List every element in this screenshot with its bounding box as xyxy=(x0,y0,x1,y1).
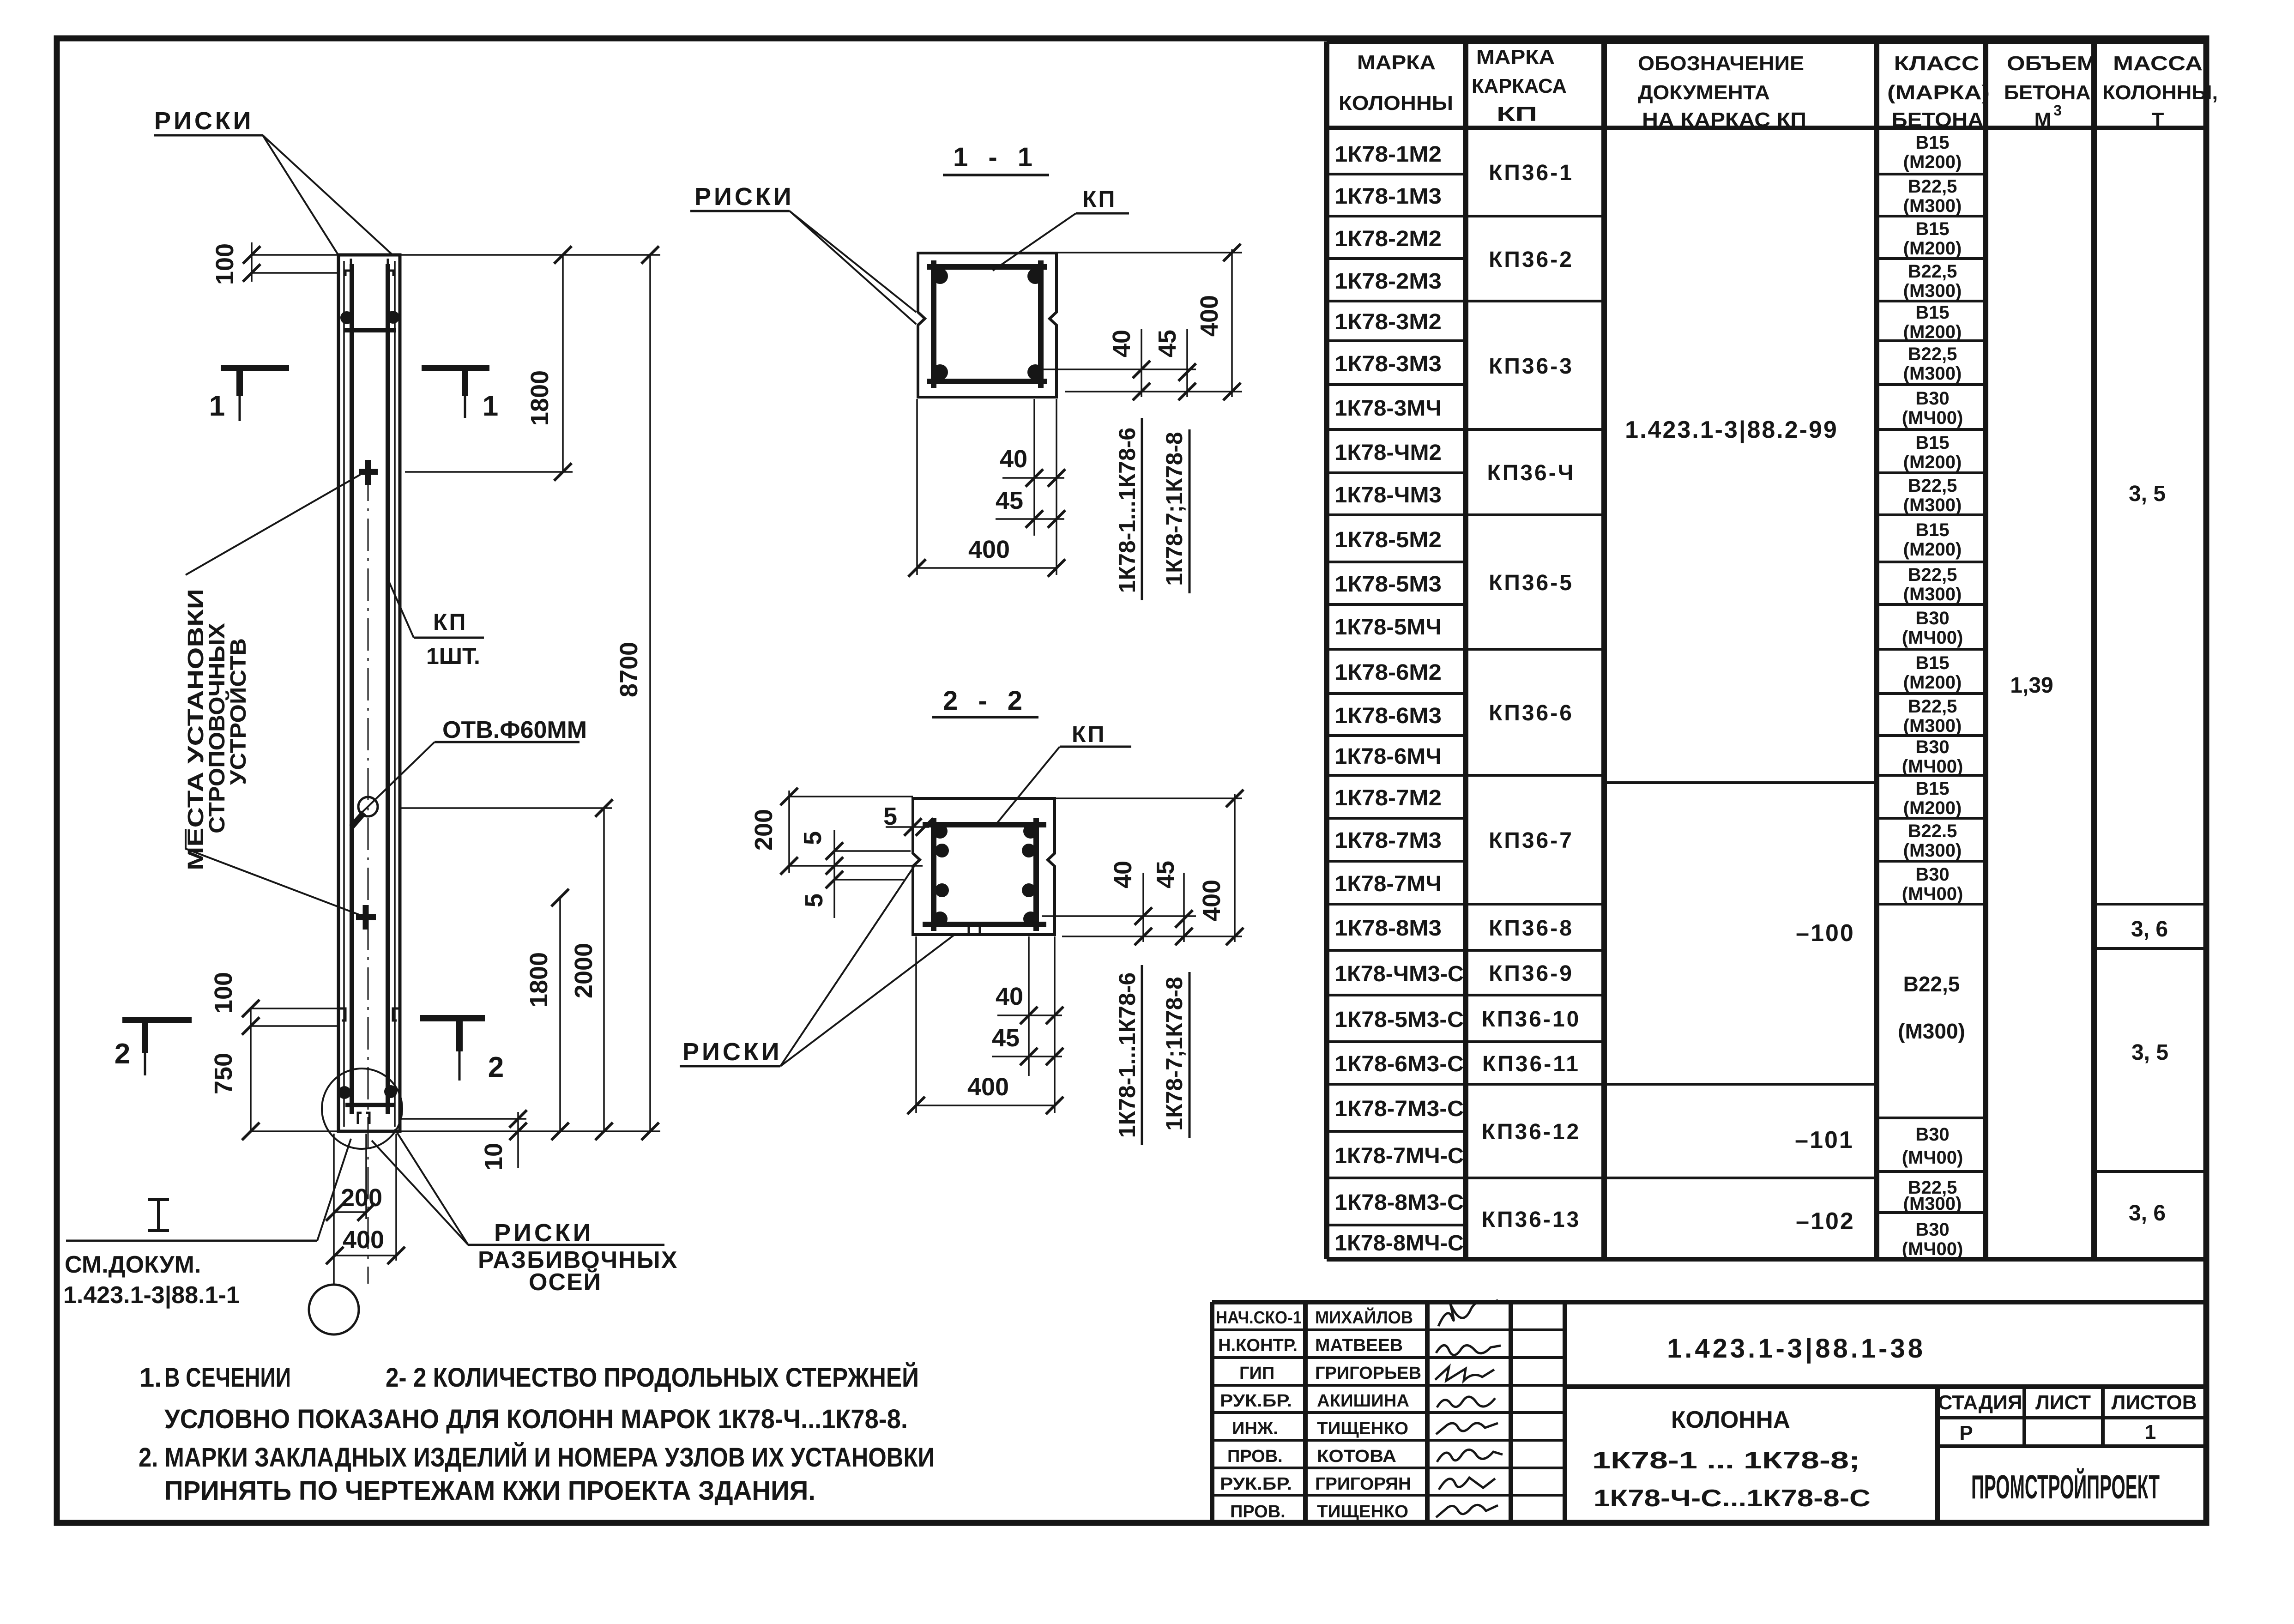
svg-text:1К78-1 ... 1К78-8;: 1К78-1 ... 1К78-8; xyxy=(1592,1447,1860,1474)
svg-text:КП36-6: КП36-6 xyxy=(1489,701,1574,725)
svg-text:КП: КП xyxy=(1072,721,1106,747)
svg-text:В15: В15 xyxy=(1915,433,1949,453)
svg-text:1К78-6М2: 1К78-6М2 xyxy=(1334,660,1442,685)
role/name texts xyxy=(1216,1307,1421,1521)
svg-text:(МЧ00): (МЧ00) xyxy=(1902,756,1963,777)
svg-text:ОБОЗНАЧЕНИЕ: ОБОЗНАЧЕНИЕ xyxy=(1638,52,1804,75)
svg-text:1К78-1М3: 1К78-1М3 xyxy=(1334,184,1442,209)
svg-text:УСТРОЙСТВ: УСТРОЙСТВ xyxy=(225,638,251,785)
svg-text:(МЧ00): (МЧ00) xyxy=(1902,1239,1963,1259)
svg-text:(МЧ00): (МЧ00) xyxy=(1902,408,1963,428)
bottom risk mark s22 xyxy=(969,925,980,934)
svg-text:1К78-1...1К78-6: 1К78-1...1К78-6 xyxy=(1114,972,1140,1138)
svg-text:(М300): (М300) xyxy=(1903,281,1962,301)
bar dots xyxy=(933,824,948,839)
svg-text:400: 400 xyxy=(1198,880,1225,921)
stirrup xyxy=(927,260,1047,388)
svg-text:В15: В15 xyxy=(1915,219,1949,239)
svg-text:КП: КП xyxy=(1497,103,1537,126)
svg-text:2000: 2000 xyxy=(570,943,598,998)
svg-text:1К78-6М3-С: 1К78-6М3-С xyxy=(1334,1052,1464,1076)
col5 col6 texts xyxy=(2010,482,2168,1226)
svg-text:КП36-3: КП36-3 xyxy=(1489,354,1574,379)
svg-text:40: 40 xyxy=(996,983,1023,1010)
svg-text:(М300): (М300) xyxy=(1903,1194,1962,1214)
svg-text:1.423.1-3|88.2-99: 1.423.1-3|88.2-99 xyxy=(1625,417,1838,443)
svg-text:1К78-6М3: 1К78-6М3 xyxy=(1334,704,1442,728)
svg-text:2: 2 xyxy=(115,1038,130,1070)
svg-text:ГИП: ГИП xyxy=(1239,1364,1274,1383)
svg-text:1К78-5М3-С: 1К78-5М3-С xyxy=(1334,1008,1464,1032)
svg-text:Н.КОНТР.: Н.КОНТР. xyxy=(1218,1336,1298,1355)
hole circle xyxy=(358,797,378,816)
svg-text:ИНЖ.: ИНЖ. xyxy=(1232,1419,1278,1438)
svg-text:РУК.БР.: РУК.БР. xyxy=(1220,1391,1292,1411)
svg-text:1К78-7М2: 1К78-7М2 xyxy=(1334,786,1442,810)
svg-text:1К78-ЧМ3-С: 1К78-ЧМ3-С xyxy=(1334,962,1464,986)
bottom dims s22 xyxy=(916,936,1062,1113)
svg-text:КП: КП xyxy=(433,609,467,635)
svg-text:ТИЩЕНКО: ТИЩЕНКО xyxy=(1317,1502,1408,1521)
right dims s11 xyxy=(1044,249,1242,397)
svg-text:ПРОВ.: ПРОВ. xyxy=(1230,1502,1286,1521)
col4 cell lines xyxy=(1877,174,1986,1213)
svg-text:(М300): (М300) xyxy=(1898,1019,1965,1043)
dim texts rotated xyxy=(210,243,643,1171)
svg-text:400: 400 xyxy=(1195,295,1223,337)
svg-text:1К78-8МЧ-С: 1К78-8МЧ-С xyxy=(1334,1231,1464,1256)
bottom stirrup xyxy=(345,1103,395,1107)
rotated mark labels s11 xyxy=(1114,428,1187,593)
svg-text:1К78-ЧМ2: 1К78-ЧМ2 xyxy=(1334,441,1442,465)
svg-text:В15: В15 xyxy=(1915,133,1949,153)
svg-text:10: 10 xyxy=(480,1143,507,1171)
svg-text:Р: Р xyxy=(1959,1422,1973,1444)
left dims s22 xyxy=(789,791,929,918)
svg-text:КП36-12: КП36-12 xyxy=(1482,1120,1581,1144)
svg-text:45: 45 xyxy=(1152,861,1179,888)
svg-text:МИХАЙЛОВ: МИХАЙЛОВ xyxy=(1315,1307,1413,1328)
corner bar dots xyxy=(932,268,948,284)
svg-text:1.423.1-3|88.1-38: 1.423.1-3|88.1-38 xyxy=(1667,1334,1926,1364)
col3 merge lines xyxy=(1604,783,1877,1178)
hole strop slash xyxy=(351,813,364,827)
svg-text:ОСЕЙ: ОСЕЙ xyxy=(529,1268,602,1296)
SECTION22 xyxy=(680,686,1244,1145)
svg-text:(МЧ00): (МЧ00) xyxy=(1902,884,1963,904)
svg-text:1К78-5М3: 1К78-5М3 xyxy=(1334,572,1442,597)
svg-text:КП36-9: КП36-9 xyxy=(1489,961,1574,986)
svg-text:1К78-2М3: 1К78-2М3 xyxy=(1334,269,1442,294)
svg-text:КП36-1: КП36-1 xyxy=(1489,161,1574,185)
svg-text:В22,5: В22,5 xyxy=(1908,261,1957,282)
svg-text:В СЕЧЕНИИ: В СЕЧЕНИИ xyxy=(164,1363,291,1393)
svg-text:200: 200 xyxy=(750,809,778,851)
svg-text:РИСКИ: РИСКИ xyxy=(694,183,794,211)
svg-text:В22.5: В22.5 xyxy=(1908,821,1957,841)
right dims s22 xyxy=(1042,794,1242,942)
strop cross 1 xyxy=(359,460,378,485)
svg-text:РИСКИ: РИСКИ xyxy=(494,1219,594,1247)
top risk brackets xyxy=(345,259,393,276)
svg-text:КОЛОННА: КОЛОННА xyxy=(1671,1407,1790,1433)
NOTES xyxy=(139,1363,935,1506)
svg-text:В30: В30 xyxy=(1915,1124,1949,1145)
TITLEBLOCK xyxy=(1212,1300,2206,1523)
svg-text:40: 40 xyxy=(1000,445,1027,473)
svg-text:(М200): (М200) xyxy=(1903,152,1962,172)
svg-text:1К78-7М3-С: 1К78-7М3-С xyxy=(1334,1097,1464,1121)
col4 cell texts xyxy=(1898,133,1965,1259)
svg-text:ПРОВ.: ПРОВ. xyxy=(1227,1447,1283,1466)
svg-text:1К78-3М2: 1К78-3М2 xyxy=(1334,310,1442,334)
signature rows xyxy=(1212,1330,1565,1495)
col1 row lines xyxy=(1327,174,1466,1225)
svg-text:45: 45 xyxy=(996,487,1023,514)
svg-text:КП36-13: КП36-13 xyxy=(1482,1207,1581,1232)
bottom dims s11 xyxy=(917,399,1064,575)
svg-text:1К78-Ч-С...1К78-8-С: 1К78-Ч-С...1К78-8-С xyxy=(1594,1485,1871,1512)
svg-text:КП36-8: КП36-8 xyxy=(1489,916,1574,941)
svg-text:В22,5: В22,5 xyxy=(1908,344,1957,364)
svg-text:КП36-Ч: КП36-Ч xyxy=(1487,461,1576,485)
svg-text:1К78-7;1К78-8: 1К78-7;1К78-8 xyxy=(1161,432,1187,586)
svg-text:1К78-8М3-С: 1К78-8М3-С xyxy=(1334,1190,1464,1215)
svg-text:1К78-1М2: 1К78-1М2 xyxy=(1334,142,1442,167)
svg-text:–101: –101 xyxy=(1795,1127,1854,1153)
svg-text:(М300): (М300) xyxy=(1903,584,1962,604)
svg-text:3, 6: 3, 6 xyxy=(2129,1201,2166,1226)
svg-text:400: 400 xyxy=(343,1226,384,1254)
svg-text:В22,5: В22,5 xyxy=(1908,476,1957,496)
svg-text:КЛАСС: КЛАСС xyxy=(1894,52,1980,75)
svg-text:В22,5: В22,5 xyxy=(1908,565,1957,585)
col6 cell lines xyxy=(2094,904,2206,1171)
svg-text:(МЧ00): (МЧ00) xyxy=(1902,1147,1963,1168)
svg-text:1,39: 1,39 xyxy=(2010,673,2053,698)
extension lines xyxy=(251,255,660,1261)
svg-text:3, 5: 3, 5 xyxy=(2131,1040,2168,1065)
svg-text:КОТОВА: КОТОВА xyxy=(1317,1447,1396,1466)
svg-text:В30: В30 xyxy=(1915,737,1949,757)
svg-text:(М300): (М300) xyxy=(1903,716,1962,736)
svg-text:3: 3 xyxy=(2053,102,2062,119)
svg-text:(М200): (М200) xyxy=(1903,322,1962,342)
svg-text:1К78-3МЧ: 1К78-3МЧ xyxy=(1334,396,1442,421)
section outline with notches xyxy=(913,798,1055,935)
svg-text:СТАДИЯ: СТАДИЯ xyxy=(1938,1391,2022,1414)
svg-text:(М200): (М200) xyxy=(1903,539,1962,560)
svg-text:1.423.1-3|88.1-1: 1.423.1-3|88.1-1 xyxy=(63,1282,240,1309)
svg-text:ГРИГОРЬЕВ: ГРИГОРЬЕВ xyxy=(1315,1364,1421,1383)
svg-text:200: 200 xyxy=(341,1184,382,1212)
svg-text:40: 40 xyxy=(1109,861,1137,888)
centerline (dash-dot) xyxy=(368,469,369,1284)
svg-text:–100: –100 xyxy=(1796,920,1855,947)
svg-text:100: 100 xyxy=(211,243,239,285)
section mark 2 left xyxy=(122,1020,192,1075)
svg-text:В15: В15 xyxy=(1915,520,1949,540)
rotated mark labels s22 xyxy=(1114,972,1187,1138)
svg-text:400: 400 xyxy=(967,1073,1009,1101)
svg-text:–102: –102 xyxy=(1796,1208,1855,1235)
svg-text:(М200): (М200) xyxy=(1903,238,1962,259)
roman I mark xyxy=(148,1200,169,1231)
svg-text:ЛИСТОВ: ЛИСТОВ xyxy=(2112,1391,2197,1414)
svg-text:3, 6: 3, 6 xyxy=(2131,917,2168,942)
svg-text:3, 5: 3, 5 xyxy=(2129,482,2166,506)
svg-text:45: 45 xyxy=(1153,330,1181,357)
svg-text:2- 2 КОЛИЧЕСТВО ПРОДОЛЬНЫХ С: 2- 2 КОЛИЧЕСТВО ПРОДОЛЬНЫХ СТЕРЖНЕЙ xyxy=(386,1363,919,1393)
svg-text:В30: В30 xyxy=(1915,1220,1949,1240)
dim verticals xyxy=(251,242,650,1256)
svg-text:МАРКА: МАРКА xyxy=(1476,46,1555,68)
svg-text:1 - 1: 1 - 1 xyxy=(953,142,1039,172)
svg-text:1К78-ЧМ3: 1К78-ЧМ3 xyxy=(1334,483,1442,507)
svg-text:В30: В30 xyxy=(1915,388,1949,409)
top stirrup xyxy=(344,328,396,332)
signatures xyxy=(1435,1300,1503,1517)
svg-text:ПРИНЯТЬ ПО ЧЕРТЕЖАМ КЖИ П: ПРИНЯТЬ ПО ЧЕРТЕЖАМ КЖИ ПРОЕКТА ЗДАНИЯ. xyxy=(164,1476,815,1506)
svg-text:БЕТОНА,: БЕТОНА, xyxy=(2004,81,2096,104)
svg-text:МАССА: МАССА xyxy=(2113,52,2203,75)
header texts xyxy=(1339,46,2218,131)
svg-text:1К78-7МЧ-С: 1К78-7МЧ-С xyxy=(1334,1144,1464,1168)
svg-text:В15: В15 xyxy=(1915,653,1949,673)
svg-text:КОЛОННЫ: КОЛОННЫ xyxy=(1339,92,1453,115)
svg-text:(МАРКА): (МАРКА) xyxy=(1887,81,1990,104)
svg-text:НАЧ.СКО-1: НАЧ.СКО-1 xyxy=(1216,1308,1302,1328)
svg-text:1К78-7;1К78-8: 1К78-7;1К78-8 xyxy=(1161,977,1187,1130)
TABLE xyxy=(1327,42,2218,1259)
svg-text:1К78-8М3: 1К78-8М3 xyxy=(1334,916,1442,941)
svg-text:КОЛОННЫ,: КОЛОННЫ, xyxy=(2102,81,2218,104)
svg-text:В15: В15 xyxy=(1915,302,1949,323)
svg-text:ПРОМСТРОЙПРОЕКТ: ПРОМСТРОЙПРОЕКТ xyxy=(1971,1468,2160,1506)
svg-text:8700: 8700 xyxy=(615,642,643,697)
svg-text:1К78-3М3: 1К78-3М3 xyxy=(1334,352,1442,376)
svg-text:5: 5 xyxy=(800,894,828,907)
svg-text:ОБЪЕМ: ОБЪЕМ xyxy=(2007,52,2096,75)
svg-text:(М300): (М300) xyxy=(1903,495,1962,515)
detail circle at foot xyxy=(322,1069,402,1149)
svg-text:М: М xyxy=(2034,109,2052,131)
svg-text:НА КАРКАС КП: НА КАРКАС КП xyxy=(1642,109,1806,131)
svg-text:РИСКИ: РИСКИ xyxy=(682,1038,782,1066)
strop dots top xyxy=(340,311,353,324)
svg-text:(М200): (М200) xyxy=(1903,672,1962,693)
svg-text:В22,5: В22,5 xyxy=(1908,176,1957,197)
svg-text:КП36-10: КП36-10 xyxy=(1482,1007,1581,1032)
svg-text:2: 2 xyxy=(488,1051,504,1083)
svg-text:ТИЩЕНКО: ТИЩЕНКО xyxy=(1317,1419,1408,1438)
col3 cell texts xyxy=(1625,417,1855,1235)
svg-text:КП: КП xyxy=(1082,186,1117,212)
table top, header bottom, table bottom xyxy=(1327,42,2206,1259)
col1 cell texts xyxy=(1334,142,1464,1256)
bottom risk brackets xyxy=(340,1008,398,1124)
svg-text:1ШТ.: 1ШТ. xyxy=(426,643,480,669)
svg-text:В22,5: В22,5 xyxy=(1908,696,1957,717)
svg-text:1: 1 xyxy=(2145,1421,2156,1443)
svg-text:5: 5 xyxy=(883,803,897,830)
svg-text:(М200): (М200) xyxy=(1903,452,1962,472)
ELEVATION xyxy=(63,107,678,1334)
section outline with notches xyxy=(918,253,1056,397)
svg-text:ЛИСТ: ЛИСТ xyxy=(2035,1391,2091,1414)
svg-text:1К78-2М2: 1К78-2М2 xyxy=(1334,227,1442,251)
svg-text:КП36-7: КП36-7 xyxy=(1489,828,1574,853)
svg-text:МАРКА: МАРКА xyxy=(1357,51,1436,74)
svg-text:1К78-1...1К78-6: 1К78-1...1К78-6 xyxy=(1114,428,1140,593)
svg-text:1: 1 xyxy=(209,390,225,422)
svg-text:750: 750 xyxy=(210,1053,237,1094)
svg-text:(МЧ00): (МЧ00) xyxy=(1902,628,1963,648)
svg-text:1К78-5МЧ: 1К78-5МЧ xyxy=(1334,615,1442,640)
svg-text:100: 100 xyxy=(210,972,237,1014)
stadia texts xyxy=(1938,1391,2197,1444)
section mark 2 right xyxy=(420,1018,485,1081)
svg-text:АКИШИНА: АКИШИНА xyxy=(1317,1391,1409,1411)
svg-text:КП36-2: КП36-2 xyxy=(1489,248,1574,272)
svg-text:В22,5: В22,5 xyxy=(1903,972,1960,996)
svg-text:(М200): (М200) xyxy=(1903,798,1962,818)
svg-text:5: 5 xyxy=(799,831,827,845)
column inner face lines xyxy=(344,261,395,1127)
svg-text:1К78-7М3: 1К78-7М3 xyxy=(1334,828,1442,853)
svg-text:1К78-6МЧ: 1К78-6МЧ xyxy=(1334,744,1442,769)
svg-text:1К78-7МЧ: 1К78-7МЧ xyxy=(1334,872,1442,896)
svg-text:45: 45 xyxy=(992,1024,1020,1052)
svg-text:1.: 1. xyxy=(139,1363,162,1393)
strop cross 2 xyxy=(356,905,376,930)
svg-text:1800: 1800 xyxy=(525,952,553,1008)
svg-text:КП36-5: КП36-5 xyxy=(1489,571,1574,595)
SECTION11 xyxy=(690,142,1242,600)
stadia table xyxy=(1938,1387,2206,1446)
svg-text:КАРКАСА: КАРКАСА xyxy=(1472,75,1567,97)
strop dots bottom xyxy=(338,1086,351,1099)
svg-text:КП36-11: КП36-11 xyxy=(1482,1052,1580,1076)
stirrup xyxy=(923,818,1046,931)
svg-text:1: 1 xyxy=(483,390,498,422)
svg-text:БЕТОНА: БЕТОНА xyxy=(1892,109,1984,131)
svg-text:ДОКУМЕНТА: ДОКУМЕНТА xyxy=(1638,81,1770,104)
svg-text:СМ.ДОКУМ.: СМ.ДОКУМ. xyxy=(65,1251,201,1278)
svg-text:40: 40 xyxy=(1108,330,1135,357)
svg-text:1К78-5М2: 1К78-5М2 xyxy=(1334,528,1442,552)
svg-text:РУК.БР.: РУК.БР. xyxy=(1220,1474,1292,1494)
svg-text:РИСКИ: РИСКИ xyxy=(154,107,254,135)
dim ticks xyxy=(243,246,260,264)
svg-text:(М300): (М300) xyxy=(1903,363,1962,384)
svg-text:В15: В15 xyxy=(1915,779,1949,799)
svg-text:(М300): (М300) xyxy=(1903,196,1962,216)
svg-text:ГРИГОРЯН: ГРИГОРЯН xyxy=(1315,1474,1411,1494)
col2 cell texts xyxy=(1482,161,1581,1232)
svg-text:2. МАРКИ ЗАКЛАДНЫХ ИЗДЕЛИЙ И: 2. МАРКИ ЗАКЛАДНЫХ ИЗДЕЛИЙ И НОМЕРА УЗЛО… xyxy=(139,1443,935,1473)
svg-text:(М300): (М300) xyxy=(1903,840,1962,861)
svg-text:Т: Т xyxy=(2152,109,2164,131)
section mark 1 right xyxy=(422,368,489,418)
svg-text:В30: В30 xyxy=(1915,608,1949,628)
svg-text:1800: 1800 xyxy=(526,370,554,426)
svg-text:УСЛОВНО ПОКАЗАНО ДЛЯ КОЛОНН: УСЛОВНО ПОКАЗАНО ДЛЯ КОЛОНН МАРОК 1К78-Ч… xyxy=(164,1404,908,1434)
svg-text:ОТВ.Ф60ММ: ОТВ.Ф60ММ xyxy=(442,717,587,743)
col2 merge lines xyxy=(1466,216,1604,1178)
rebar bars (longitudinal) xyxy=(352,264,388,1114)
svg-text:2 - 2: 2 - 2 xyxy=(943,686,1029,716)
table grid verticals xyxy=(1327,42,2206,1259)
column outline xyxy=(338,255,400,1131)
svg-text:МАТВЕЕВ: МАТВЕЕВ xyxy=(1315,1336,1403,1355)
section mark 1 left xyxy=(221,368,289,421)
svg-text:В30: В30 xyxy=(1915,864,1949,885)
label MESTA USTANOVKI (rotated) xyxy=(184,589,251,870)
svg-text:400: 400 xyxy=(968,536,1010,563)
axis circle xyxy=(309,1285,359,1334)
